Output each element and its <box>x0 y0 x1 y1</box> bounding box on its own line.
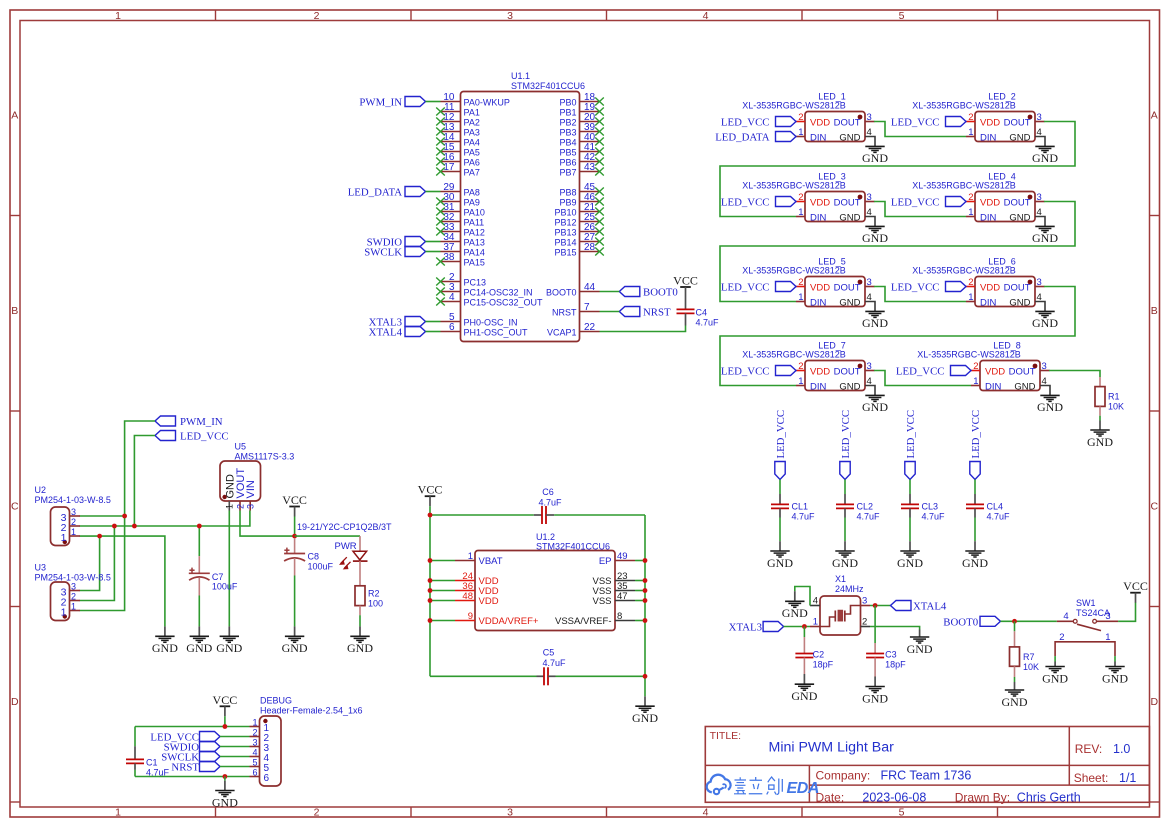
junction <box>292 534 297 539</box>
svg-text:PB14: PB14 <box>554 238 576 248</box>
ground below C7 <box>186 626 212 655</box>
svg-text:7: 7 <box>584 302 590 313</box>
svg-text:2: 2 <box>968 277 973 288</box>
wire <box>909 480 911 495</box>
LED LED_5 labels <box>742 256 846 275</box>
ground below LED_1 <box>862 146 888 165</box>
IC U1.2 labels <box>536 532 610 552</box>
svg-text:Sheet:: Sheet: <box>1074 771 1109 785</box>
wire <box>1054 656 1056 661</box>
svg-text:GND: GND <box>839 133 860 144</box>
svg-text:D: D <box>11 696 19 708</box>
svg-text:2: 2 <box>968 192 973 203</box>
U1.1 pin 17 PA7 <box>436 162 480 178</box>
svg-text:XTAL4: XTAL4 <box>369 327 403 339</box>
U5 pin 1 GND <box>224 474 236 511</box>
LED_6 pin 3 DOUT <box>1004 277 1045 294</box>
wire X1 pin4 to GND <box>795 587 810 606</box>
svg-text:LED_VCC: LED_VCC <box>970 410 982 459</box>
DEBUG pin 5 <box>250 758 270 774</box>
svg-text:GND: GND <box>1102 671 1128 685</box>
ground below LED_4 <box>1032 226 1058 245</box>
wire <box>220 736 250 738</box>
svg-text:9: 9 <box>468 611 473 622</box>
LED_2 pin 3 DOUT <box>1004 112 1045 129</box>
svg-text:1: 1 <box>252 718 257 728</box>
power flag VCC <box>673 274 698 298</box>
svg-text:3: 3 <box>507 807 513 819</box>
svg-text:PA15: PA15 <box>464 258 485 268</box>
svg-text:PB5: PB5 <box>559 148 576 158</box>
svg-text:U5: U5 <box>235 442 247 452</box>
DEBUG pin 6 <box>250 768 270 784</box>
svg-text:PB2: PB2 <box>559 118 576 128</box>
junction <box>643 598 648 603</box>
LED_1 pin 3 DOUT <box>834 112 875 129</box>
capacitor CL3 <box>901 494 945 522</box>
svg-text:47: 47 <box>617 591 628 602</box>
svg-text:GND: GND <box>1042 671 1068 685</box>
logo EasyEDA cloud <box>707 775 731 794</box>
svg-text:XL-3535RGBC-WS2812B: XL-3535RGBC-WS2812B <box>742 181 846 191</box>
svg-text:4: 4 <box>1037 127 1042 138</box>
U1.2 pin 9 VDDA/VREF+ <box>455 611 539 627</box>
LED LED_6 labels <box>912 256 1016 275</box>
svg-text:LED_DATA: LED_DATA <box>715 132 770 144</box>
DEBUG pin 3 <box>250 738 270 754</box>
wire X1 pin2 to GND <box>870 627 920 630</box>
svg-text:4.7uF: 4.7uF <box>987 512 1011 522</box>
svg-text:3: 3 <box>252 738 257 748</box>
wire SW1 pin3 to VCC <box>1118 603 1135 622</box>
switch SW1 pins 1-2 bracket <box>1055 632 1115 656</box>
wire U1.2 left rail <box>429 515 431 676</box>
svg-text:A: A <box>11 110 18 122</box>
junction <box>428 618 433 623</box>
svg-text:XTAL4: XTAL4 <box>913 601 947 613</box>
logo text EDA <box>787 780 820 797</box>
net flag NRST (debug) <box>171 762 220 774</box>
svg-text:2: 2 <box>968 112 973 123</box>
ground below LED_2 <box>1032 146 1058 165</box>
svg-text:VDD: VDD <box>980 283 1000 294</box>
ground below C2 <box>791 674 817 703</box>
svg-text:4.7uF: 4.7uF <box>542 658 566 668</box>
wire <box>426 191 441 193</box>
net flag XTAL4 (crystal) <box>891 601 947 613</box>
svg-text:2: 2 <box>798 361 803 372</box>
net flag PWM_IN (power section) <box>155 416 223 428</box>
U1.1 pin 3 PC14-OSC32_IN <box>436 282 532 298</box>
LED LED_2 body <box>975 112 1035 142</box>
switch SW1 pin 3 <box>1093 611 1118 623</box>
svg-text:PA3: PA3 <box>464 128 480 138</box>
svg-text:PB6: PB6 <box>559 158 576 168</box>
LED_2 pin 1 DIN <box>966 127 997 144</box>
svg-text:SWCLK: SWCLK <box>364 247 402 259</box>
svg-text:PA13: PA13 <box>464 238 485 248</box>
svg-text:A: A <box>1151 110 1158 122</box>
svg-text:3: 3 <box>246 504 256 509</box>
svg-text:PB13: PB13 <box>554 228 576 238</box>
svg-text:PB1: PB1 <box>559 108 576 118</box>
U1.1 pin 40 PB4 <box>559 132 603 148</box>
svg-text:DIN: DIN <box>985 382 1002 393</box>
svg-text:PA12: PA12 <box>464 228 485 238</box>
junction <box>643 578 648 583</box>
svg-text:PB4: PB4 <box>559 138 576 148</box>
svg-text:GND: GND <box>1032 316 1058 330</box>
U1.2 pin 24 VDD <box>455 571 499 587</box>
U1.2 pin 47 VSS <box>592 591 635 607</box>
svg-text:3: 3 <box>867 112 872 123</box>
LED_5 pin 4 GND <box>839 292 875 311</box>
net flag LED_VCC at LED_6 <box>891 282 966 294</box>
svg-text:LED_DATA: LED_DATA <box>348 187 403 199</box>
svg-text:3: 3 <box>1037 277 1042 288</box>
LED_3 pin 2 VDD <box>796 192 830 209</box>
svg-text:X1: X1 <box>835 574 846 584</box>
svg-text:1: 1 <box>61 606 67 618</box>
U1.1 pin 13 PA3 <box>436 122 480 138</box>
logo text JiaLiChuang <box>734 777 782 795</box>
svg-text:PA5: PA5 <box>464 148 480 158</box>
svg-text:GND: GND <box>782 606 808 620</box>
svg-text:PB7: PB7 <box>559 168 576 178</box>
U1.1 pin 22 VCAP1 <box>547 322 600 338</box>
wire <box>430 620 455 622</box>
svg-text:VDD: VDD <box>980 198 1000 209</box>
net flag LED_VCC vertical at CL2 <box>840 410 852 480</box>
svg-text:BOOT0: BOOT0 <box>546 288 577 298</box>
svg-text:EP: EP <box>599 556 612 567</box>
connector U3 body <box>51 582 70 621</box>
svg-text:4: 4 <box>867 292 872 303</box>
LED_2 pin 4 GND <box>1009 127 1045 146</box>
net flag XTAL3 <box>369 317 426 329</box>
net flag SWDIO <box>367 237 426 249</box>
wire <box>224 716 226 726</box>
U1.1 pin 29 PA8 <box>441 182 480 198</box>
svg-text:4: 4 <box>1042 376 1047 387</box>
svg-text:22: 22 <box>584 322 596 333</box>
title value FRC Team 1736 <box>881 769 972 783</box>
U1.2 pin 23 VSS <box>592 571 635 587</box>
ground below R7 <box>1002 682 1028 709</box>
LED_1 pin 1 DIN <box>796 127 827 144</box>
resistor R2 <box>355 561 383 626</box>
svg-text:VCC: VCC <box>1123 579 1148 593</box>
junction <box>643 618 648 623</box>
title label Company: <box>816 769 871 783</box>
junction <box>802 624 807 629</box>
svg-text:VDD: VDD <box>810 118 830 129</box>
wire LED_2 DOUT to LED_3 DIN <box>720 122 1075 217</box>
U1.1 pin 30 PA9 <box>436 192 480 208</box>
LED LED_1 labels <box>742 91 846 110</box>
svg-text:GND: GND <box>1009 133 1030 144</box>
svg-text:6: 6 <box>264 773 270 784</box>
U1.2 pin 35 VSS <box>592 581 635 597</box>
svg-text:PWM_IN: PWM_IN <box>359 97 402 109</box>
svg-text:4.7uF: 4.7uF <box>538 498 562 508</box>
svg-text:LED_VCC: LED_VCC <box>775 410 787 459</box>
wire <box>784 626 810 628</box>
svg-text:2: 2 <box>798 277 803 288</box>
svg-text:Drawn By:: Drawn By: <box>955 790 1010 804</box>
svg-text:U2: U2 <box>35 485 47 495</box>
wire <box>1114 656 1116 661</box>
wire <box>600 291 620 293</box>
svg-text:4: 4 <box>703 10 709 22</box>
LED_8 pin 3 DOUT <box>1009 361 1050 378</box>
svg-text:LED_VCC: LED_VCC <box>891 282 940 294</box>
svg-text:3: 3 <box>1037 192 1042 203</box>
junction <box>643 588 648 593</box>
wire <box>429 506 431 515</box>
U1.1 pin 43 PB7 <box>559 162 603 178</box>
wire <box>430 600 455 602</box>
svg-text:2: 2 <box>314 10 320 22</box>
U1.2 pin 36 VDD <box>455 581 499 597</box>
svg-text:XTAL3: XTAL3 <box>729 622 762 634</box>
junction <box>112 524 117 529</box>
U1.1 pin 16 PA6 <box>436 152 480 168</box>
junction <box>428 598 433 603</box>
net flag LED_VCC at LED_4 <box>891 197 966 209</box>
svg-text:PC13: PC13 <box>464 278 487 288</box>
svg-text:3: 3 <box>71 582 76 592</box>
svg-text:2: 2 <box>235 504 245 509</box>
svg-text:GND: GND <box>1009 213 1030 224</box>
wire <box>220 766 250 768</box>
svg-text:VDD: VDD <box>980 118 1000 129</box>
svg-text:PH1-OSC_OUT: PH1-OSC_OUT <box>464 328 529 338</box>
svg-text:4: 4 <box>867 207 872 218</box>
wire <box>635 560 645 562</box>
svg-text:DIN: DIN <box>810 382 827 393</box>
label PWR <box>335 541 357 552</box>
LED_5 pin 2 VDD <box>796 277 830 294</box>
svg-text:GND: GND <box>862 691 888 705</box>
svg-text:C7: C7 <box>212 572 224 582</box>
svg-text:2: 2 <box>798 192 803 203</box>
svg-text:C: C <box>11 501 19 513</box>
capacitor C5 <box>430 648 645 686</box>
U1.1 pin 2 PC13 <box>436 272 486 288</box>
ground below LED_6 <box>1032 311 1058 330</box>
svg-text:PA2: PA2 <box>464 118 480 128</box>
svg-text:PA8: PA8 <box>464 188 480 198</box>
junction <box>132 524 137 529</box>
svg-text:CL2: CL2 <box>857 502 874 512</box>
svg-text:REV:: REV: <box>1075 742 1103 756</box>
svg-text:PA6: PA6 <box>464 158 480 168</box>
svg-text:GND: GND <box>212 795 238 809</box>
svg-text:GND: GND <box>1087 435 1113 449</box>
U1.1 pin 25 PB12 <box>554 212 603 228</box>
svg-text:4: 4 <box>867 127 872 138</box>
svg-text:GND: GND <box>962 556 988 570</box>
svg-text:1: 1 <box>798 292 803 303</box>
svg-text:4.7uF: 4.7uF <box>146 768 170 778</box>
svg-text:DOUT: DOUT <box>1004 283 1031 294</box>
svg-text:1: 1 <box>61 532 67 544</box>
svg-text:1: 1 <box>115 807 121 819</box>
svg-text:4.7uF: 4.7uF <box>922 512 946 522</box>
ground at SW1 pin2 <box>1042 662 1068 686</box>
title value 1.0 <box>1113 742 1130 756</box>
wire <box>426 331 441 333</box>
svg-text:1: 1 <box>968 207 973 218</box>
svg-text:2: 2 <box>71 517 76 527</box>
wire U1.2 right rail <box>644 515 646 696</box>
svg-text:PWM_IN: PWM_IN <box>180 416 223 428</box>
svg-text:Date:: Date: <box>816 790 845 804</box>
LED_6 pin 2 VDD <box>966 277 1000 294</box>
svg-text:R7: R7 <box>1023 652 1035 662</box>
svg-text:VSSA/VREF-: VSSA/VREF- <box>555 616 612 627</box>
IC U1.2 body <box>475 551 615 631</box>
svg-text:DOUT: DOUT <box>834 367 861 378</box>
capacitor C1 <box>126 727 170 778</box>
junction <box>223 724 228 729</box>
wire LED_7 DOUT to LED_8 DIN <box>874 371 971 386</box>
net flag LED_VCC at LED_1 <box>721 117 796 129</box>
title value Chris Gerth <box>1017 790 1081 804</box>
crystal X1 labels <box>835 574 864 594</box>
power flag VCC (switch) <box>1123 579 1148 603</box>
wire <box>426 241 441 243</box>
LED_1 pin 2 VDD <box>796 112 830 129</box>
capacitor CL1 <box>771 494 815 522</box>
title label Sheet: <box>1074 771 1109 785</box>
U1.1 pin 6 PH1-OSC_OUT <box>441 322 529 338</box>
svg-text:VCC: VCC <box>213 693 238 707</box>
capacitor C6 <box>430 487 645 524</box>
switch SW1 labels <box>1076 598 1110 618</box>
svg-text:2: 2 <box>1059 632 1064 643</box>
junction <box>428 578 433 583</box>
capacitor CL4 <box>966 494 1010 522</box>
wire <box>635 590 645 592</box>
junction <box>197 524 202 529</box>
svg-text:GND: GND <box>1032 231 1058 245</box>
U1.1 pin 19 PB1 <box>559 102 603 118</box>
U1.1 pin 44 BOOT0 <box>546 282 600 298</box>
svg-text:BOOT0: BOOT0 <box>643 287 678 299</box>
U1.1 pin 39 PB3 <box>559 122 603 138</box>
svg-text:U3: U3 <box>35 563 47 573</box>
svg-text:XL-3535RGBC-WS2812B: XL-3535RGBC-WS2812B <box>917 350 1021 360</box>
svg-text:PA14: PA14 <box>464 248 485 258</box>
svg-text:VDD: VDD <box>985 367 1005 378</box>
svg-text:1: 1 <box>71 602 76 612</box>
ground below R1 <box>1087 421 1113 449</box>
svg-text:3: 3 <box>71 507 76 517</box>
crystal X1 body <box>820 596 861 635</box>
wire <box>426 321 441 323</box>
svg-text:VDD: VDD <box>810 198 830 209</box>
svg-text:3: 3 <box>507 10 513 22</box>
switch SW1 lever <box>1077 624 1101 630</box>
svg-text:48: 48 <box>462 591 473 602</box>
svg-text:PB15: PB15 <box>554 248 576 258</box>
LED_4 pin 2 VDD <box>966 192 1000 209</box>
IC U1.1 body <box>461 92 580 342</box>
U3 pin 3 <box>61 582 80 599</box>
svg-text:SW1: SW1 <box>1076 598 1096 608</box>
LED_5 pin 1 DIN <box>796 292 827 309</box>
svg-text:4: 4 <box>449 292 455 303</box>
U1.1 pin 4 PC15-OSC32_OUT <box>436 292 543 308</box>
svg-text:CL1: CL1 <box>792 502 809 512</box>
resistor R7 <box>1010 621 1040 682</box>
svg-text:VDDA/VREF+: VDDA/VREF+ <box>479 616 539 627</box>
svg-text:R1: R1 <box>1108 392 1120 402</box>
wire VCAP1 to C4 <box>600 326 686 332</box>
junction <box>122 514 127 519</box>
svg-text:4: 4 <box>703 807 709 819</box>
net flag PWM_IN <box>359 97 425 109</box>
resistor R1 <box>1095 377 1124 421</box>
DEBUG pin 1 <box>250 718 270 734</box>
wire <box>220 746 250 748</box>
svg-text:LED_VCC: LED_VCC <box>905 410 917 459</box>
X1 pin 4 <box>810 596 820 607</box>
wire <box>779 480 781 495</box>
svg-text:LED_VCC: LED_VCC <box>721 366 770 378</box>
LED_8 pin 1 DIN <box>971 376 1002 393</box>
wire <box>430 560 455 562</box>
svg-text:PB3: PB3 <box>559 128 576 138</box>
svg-text:3: 3 <box>1042 361 1047 372</box>
svg-text:2: 2 <box>252 728 257 738</box>
net flag LED_VCC at LED_5 <box>721 282 796 294</box>
svg-text:DIN: DIN <box>980 298 997 309</box>
LED_4 pin 3 DOUT <box>1004 192 1045 209</box>
LED LED_3 body <box>805 192 865 222</box>
svg-text:3: 3 <box>867 192 872 203</box>
header DEBUG labels <box>260 696 363 716</box>
junction <box>223 774 228 779</box>
LED LED_2 labels <box>912 91 1016 110</box>
svg-text:PH0-OSC_IN: PH0-OSC_IN <box>464 318 518 328</box>
svg-text:DEBUG: DEBUG <box>260 696 292 706</box>
net flag LED_VCC at LED_7 <box>721 366 796 378</box>
svg-text:VSS: VSS <box>592 596 611 607</box>
svg-text:GND: GND <box>1037 400 1063 414</box>
LED_7 pin 3 DOUT <box>834 361 875 378</box>
header DEBUG body <box>260 716 282 786</box>
svg-text:GND: GND <box>862 231 888 245</box>
svg-text:2023-06-08: 2023-06-08 <box>862 790 926 804</box>
wire <box>426 251 441 253</box>
LED_4 pin 1 DIN <box>966 207 997 224</box>
junction <box>1012 619 1017 624</box>
wire U5 GND down <box>228 511 230 627</box>
U1.1 pin 41 PB5 <box>559 142 603 158</box>
wire VCC row to PWR LED <box>295 535 360 537</box>
title value 2023-06-08 <box>862 790 926 804</box>
LED_8 pin 4 GND <box>1014 376 1050 395</box>
wire <box>909 518 911 542</box>
svg-text:5: 5 <box>252 758 257 768</box>
svg-text:Mini PWM Light Bar: Mini PWM Light Bar <box>769 740 895 756</box>
net flag LED_VCC at LED_8 <box>896 366 971 378</box>
wire LED_4 DOUT to LED_5 DIN <box>720 202 1075 302</box>
svg-text:24MHz: 24MHz <box>835 584 864 594</box>
